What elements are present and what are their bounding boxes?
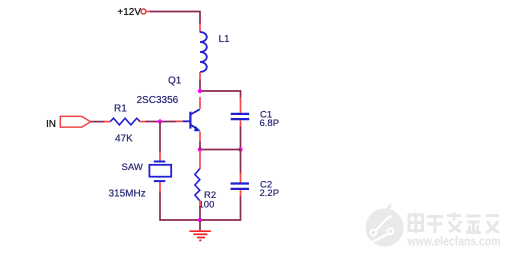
capacitor C1 <box>231 114 250 119</box>
svg-text:2.2P: 2.2P <box>260 188 280 199</box>
node base junction <box>158 119 162 123</box>
wire C2 upper <box>240 150 242 175</box>
pin stub power port <box>146 11 151 13</box>
svg-text:SAW: SAW <box>122 162 143 173</box>
pin stub L1 bottom <box>199 72 201 81</box>
wire C2 to ground rail <box>160 197 241 221</box>
pin stub SAW bottom <box>159 182 161 193</box>
pin stub Q1 base <box>175 120 183 122</box>
pin stub R1 right <box>140 121 147 123</box>
pin stub Q1 collector <box>199 97 201 109</box>
node emitter junction <box>198 147 202 151</box>
svg-text:R1: R1 <box>114 104 127 115</box>
wire emitter to rail <box>199 142 201 150</box>
pin stub C2 bottom <box>240 190 242 198</box>
resistor R2 <box>195 169 200 201</box>
wire L1 to collector node <box>199 80 201 92</box>
watermark logo circle <box>366 203 404 246</box>
inductor L1 <box>200 32 207 72</box>
ground symbol <box>190 231 211 240</box>
pin stub C1 bottom <box>240 120 242 127</box>
svg-text:315MHz: 315MHz <box>109 189 146 200</box>
transistor Q1 <box>183 109 201 131</box>
wire emitter rail <box>200 149 241 151</box>
wire power to L1 <box>150 12 200 25</box>
wire base junction down to SAW <box>159 122 161 154</box>
svg-text:Q1: Q1 <box>168 76 182 87</box>
svg-text:47K: 47K <box>115 134 133 145</box>
svg-text:2SC3356: 2SC3356 <box>137 95 179 106</box>
pin stub C1 top <box>240 98 242 113</box>
wire R2 to ground rail <box>199 206 201 220</box>
node collector junction <box>198 89 202 93</box>
power port circle <box>141 9 146 14</box>
svg-text:www.elecfans.com: www.elecfans.com <box>407 234 501 249</box>
svg-text:IN: IN <box>46 119 56 130</box>
wire SAW to ground rail <box>159 192 161 221</box>
pin stub C2 top <box>240 173 242 183</box>
crystal SAW symbol <box>149 162 171 182</box>
wire R1 to base junction <box>146 121 176 123</box>
pin stub R2 top <box>199 151 201 169</box>
watermark chinese characters <box>409 213 499 234</box>
wire collector node to C1 branch <box>200 91 241 98</box>
svg-text:+12V: +12V <box>117 7 141 18</box>
node C1 rail junction <box>238 147 242 151</box>
wire ground stub <box>199 220 201 231</box>
svg-text:100: 100 <box>199 200 215 211</box>
node ground rail junction <box>198 218 202 222</box>
svg-text:6.8P: 6.8P <box>260 118 280 129</box>
pin stub R2 bottom <box>199 200 201 207</box>
capacitor C2 <box>231 184 250 189</box>
pin stub Q1 emitter <box>199 132 201 143</box>
svg-text:L1: L1 <box>219 34 231 45</box>
resistor R1 <box>110 118 140 125</box>
pin stub L1 top <box>199 23 201 33</box>
pin stub SAW top <box>159 152 161 161</box>
wire C1 to emitter rail <box>240 127 242 150</box>
wire port to R1 <box>91 121 106 123</box>
port IN symbol <box>60 116 90 127</box>
pin stub R1 left <box>104 121 111 123</box>
